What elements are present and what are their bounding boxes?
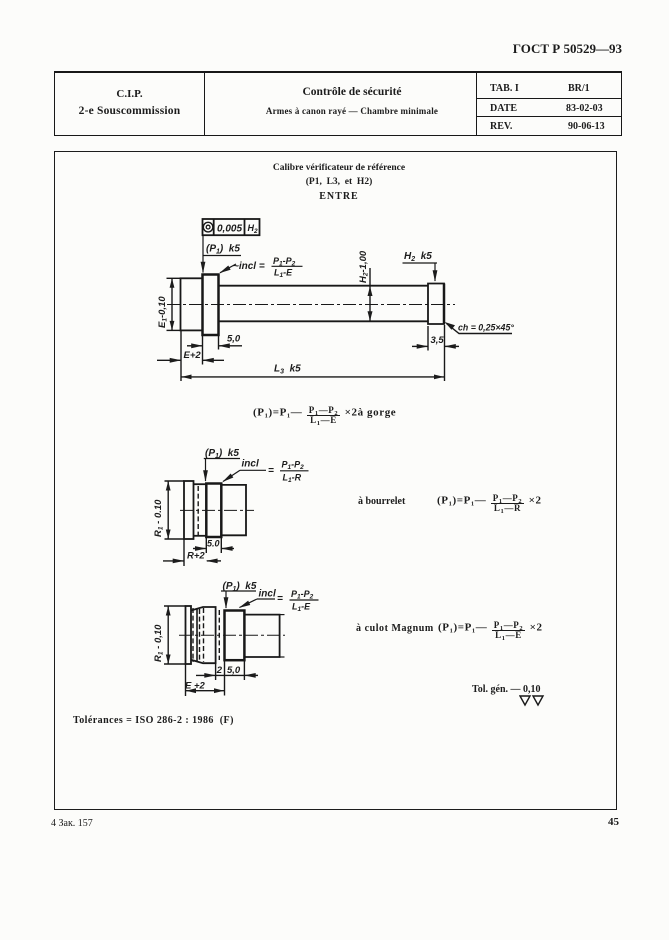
fig3 centerline [179, 634, 285, 636]
fig2 incl leader arrow [223, 470, 240, 481]
fig3 rim [186, 606, 192, 664]
fig1 label H2 k5 [404, 251, 432, 263]
fig1 label (P1) k5 [206, 244, 240, 256]
svg-text:P1-P2: P1-P2 [291, 589, 314, 601]
svg-text:R1 - 0,10: R1 - 0,10 [153, 624, 165, 662]
fig2 body [221, 485, 246, 535]
fig3 body end stubs [280, 614, 285, 616]
svg-text:5,0: 5,0 [227, 665, 241, 676]
tolerances ISO note [73, 715, 234, 726]
svg-text:5,0: 5,0 [227, 334, 241, 345]
cell tab/date/rev [476, 73, 621, 135]
drawing title [154, 163, 524, 173]
fig2 rim [184, 481, 194, 539]
formula 2 (à bourrelet) [358, 496, 405, 507]
fig1 chamfer label [458, 323, 514, 333]
svg-text:L3 k5: L3 k5 [274, 364, 301, 376]
formula 3 (à culot Magnum) [356, 623, 434, 634]
header table [54, 71, 622, 136]
fig1 dim 5,0 [202, 335, 204, 365]
fig3 gauge head P1 [225, 611, 245, 661]
fig2 gauge head P1 [206, 484, 221, 538]
formula 1 (à gorge) [253, 406, 396, 426]
svg-text:incl: incl [259, 589, 276, 600]
fig1 dim L3 k5 [444, 325, 446, 381]
fig3 hidden line [199, 609, 201, 661]
fig3 incl formula [259, 589, 314, 614]
fig3 hidden line after belt [218, 610, 220, 660]
svg-text:L1-E: L1-E [292, 602, 311, 614]
fig3 dims 2 and 5,0 [215, 663, 217, 680]
surface finish triangles [519, 695, 547, 707]
fig1 centerline [167, 304, 455, 306]
top right standard number [462, 41, 622, 57]
svg-text:R1 - 0.10: R1 - 0.10 [153, 499, 165, 537]
svg-text:E+2: E+2 [184, 350, 202, 361]
svg-text:R+2: R+2 [187, 551, 205, 562]
svg-text:3,5: 3,5 [431, 335, 445, 346]
fig3 dim R1-0,10 [164, 605, 186, 607]
fig2 groove section top [194, 483, 207, 485]
fig1 right head H2 [428, 284, 444, 325]
fig3 belt [191, 607, 216, 663]
svg-text:P1-P2: P1-P2 [282, 460, 305, 472]
footer [51, 818, 93, 829]
fig3 body [244, 615, 279, 657]
svg-text:incl: incl [242, 459, 259, 470]
svg-text:0,005: 0,005 [217, 224, 242, 235]
fig1 dim H2-1,00 [369, 268, 371, 321]
fig3 label (P1) k5 [223, 581, 257, 593]
fig1 tolerance frame (concentricity 0,005 H2) [203, 219, 260, 235]
svg-text:H2-1,00: H2-1,00 [358, 250, 370, 283]
fig3 incl leader arrow [240, 599, 258, 608]
fig2 centerline [180, 509, 254, 511]
svg-text:H2: H2 [248, 223, 259, 235]
fig1 incl formula [233, 256, 296, 279]
svg-text:ch = 0,25×45°: ch = 0,25×45° [458, 323, 514, 333]
fig2 label (P1) k5 [205, 448, 239, 460]
drawing frame [54, 151, 617, 810]
svg-text:E1-0,10: E1-0,10 [157, 296, 169, 328]
fig2 dim R+2 [183, 539, 185, 566]
fig2 dim R1-0.10 [165, 480, 185, 482]
fig3 belt hidden line [203, 608, 205, 662]
svg-text:=: = [277, 594, 283, 605]
fig1 dim 3,5 [427, 326, 429, 351]
svg-text:E +2: E +2 [185, 681, 206, 692]
svg-text:(P1) k5: (P1) k5 [206, 244, 240, 256]
fig3 groove edge [196, 609, 198, 662]
svg-text:H2 k5: H2 k5 [404, 251, 432, 263]
fig1 dim E+2 [180, 330, 182, 381]
tol gen note [472, 684, 541, 695]
svg-text:L1-R: L1-R [283, 473, 302, 485]
fig1 shaft bottom line [219, 320, 429, 322]
fig2 dim 5.0 [205, 537, 207, 553]
svg-text:5.0: 5.0 [207, 539, 220, 549]
fig2 hidden line [197, 486, 199, 535]
fig1 flange E1 [181, 278, 203, 330]
fig2 incl formula [242, 459, 305, 485]
svg-text:2: 2 [216, 665, 223, 676]
fig2 groove section bottom [194, 535, 207, 537]
cell title [204, 73, 477, 135]
fig3 rim hidden line [192, 608, 194, 662]
svg-text:~incl =: ~incl = [233, 261, 265, 272]
fig1 leader arrow to head [202, 235, 204, 272]
fig1 shaft top line [219, 285, 429, 287]
fig1 dim E1-0,10 [167, 277, 182, 279]
cell C.I.P. [55, 73, 205, 135]
fig1 gauge head P1 [203, 275, 219, 336]
fig1 incl leader arrow [220, 264, 236, 273]
svg-text:L1-E: L1-E [274, 268, 293, 280]
fig3 dim E+2 [185, 664, 187, 696]
svg-text:=: = [268, 466, 274, 477]
